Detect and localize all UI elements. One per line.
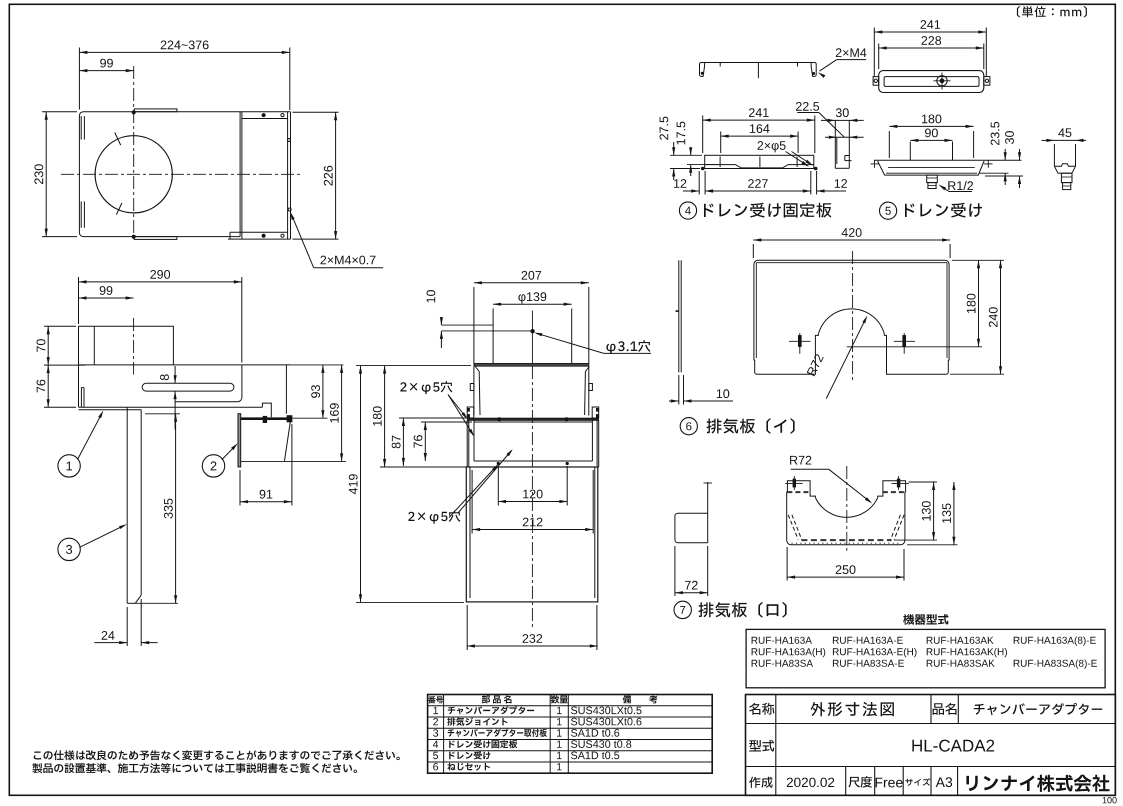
label 2x phi5 lower	[408, 511, 460, 524]
row3 cells	[845, 767, 847, 796]
dim 23.5	[1004, 149, 1006, 160]
arc center line	[847, 346, 982, 348]
screw dots on centerline	[132, 110, 136, 114]
view 3: chamber adapter side view with exhaust joint	[349, 271, 651, 650]
R72 label (view7)	[790, 456, 811, 465]
parts row 5	[433, 752, 438, 759]
tab center marks	[785, 482, 802, 484]
dim 17.5	[687, 164, 718, 166]
balloon 6 and label	[680, 418, 697, 435]
balloon 5 and label	[880, 202, 897, 219]
dim 76	[44, 406, 76, 408]
dim 120	[497, 466, 499, 506]
shoulders and concave arc	[810, 492, 815, 498]
note text line 2	[32, 763, 357, 773]
duct edges	[473, 287, 475, 364]
model row 3	[752, 660, 813, 667]
dim 419	[356, 365, 471, 367]
left flange detail	[80, 388, 82, 408]
dim 135	[907, 544, 958, 546]
lower plate	[466, 467, 598, 602]
centerline (view7)	[846, 466, 848, 551]
band screws	[497, 417, 501, 421]
dim 91	[239, 470, 241, 506]
dim 70	[44, 325, 76, 327]
parts row 4	[433, 741, 438, 748]
balloon 3	[58, 538, 80, 560]
vertical centerline	[133, 66, 135, 242]
balloon 2	[202, 455, 224, 477]
bottom legs and arch	[754, 334, 819, 374]
sliding edge	[285, 365, 287, 414]
dim 99 view2	[79, 297, 134, 299]
thick dashed bend lines under tabs	[787, 491, 810, 493]
dim 130	[909, 481, 938, 483]
duct circle	[95, 136, 172, 213]
R72 leader	[826, 318, 866, 398]
slot hole marks	[789, 340, 811, 342]
step tab to bracket	[262, 403, 271, 417]
parts table header	[428, 696, 443, 703]
view 7: exhaust plate (ro)	[674, 456, 958, 619]
box outline	[787, 492, 906, 545]
dim 30	[821, 119, 864, 121]
dim 180	[380, 466, 466, 468]
parts row 3	[433, 729, 438, 737]
dim 24	[126, 607, 128, 646]
mounting plate under body	[79, 409, 142, 411]
left flange lines	[83, 116, 85, 140]
title table frame	[746, 695, 1116, 796]
dim 22.5 leader	[825, 136, 864, 138]
side view small	[707, 482, 709, 543]
top view rounded body	[879, 71, 984, 93]
view 5: drain receiver	[871, 20, 1087, 219]
note text line 1	[34, 750, 400, 760]
centerline (view6)	[852, 251, 854, 382]
dim 169	[341, 365, 343, 462]
side view (right)	[834, 120, 836, 168]
sheet number 100	[1103, 797, 1117, 803]
exhaust joint box	[473, 366, 475, 415]
side view	[1053, 144, 1055, 166]
balloon 4 and label	[679, 202, 696, 219]
dim 212	[471, 470, 473, 534]
dim 241 top	[873, 28, 875, 78]
dim 27.5	[670, 154, 702, 156]
channel walls	[909, 142, 911, 161]
label phi3.1 hole	[606, 340, 650, 354]
dim 76	[421, 421, 472, 423]
dim 224~376	[78, 48, 80, 110]
inner panel edge	[175, 365, 242, 402]
bend dashes diagonal right	[894, 515, 904, 540]
dim 99	[79, 70, 133, 72]
dim 228	[878, 44, 880, 70]
unit note	[1017, 6, 1087, 17]
title texts	[749, 703, 774, 715]
dim 241 (view4)	[702, 116, 704, 154]
dim 226	[293, 111, 339, 113]
bracket part 2	[238, 414, 241, 467]
dim 12 left	[698, 171, 700, 195]
body band	[79, 364, 291, 366]
dim phi139	[493, 303, 572, 305]
model row 2	[752, 648, 826, 657]
panel screws	[262, 113, 266, 117]
dim 240	[950, 373, 1004, 375]
parts row 6	[433, 763, 438, 770]
parts row 2	[433, 718, 438, 725]
profile strip (top)	[703, 62, 814, 64]
dim 90	[910, 139, 952, 141]
circle tick marks	[115, 132, 121, 145]
ears	[873, 77, 879, 86]
sliding panel	[240, 111, 290, 113]
machine model box	[746, 629, 1105, 687]
slot	[142, 383, 234, 391]
view 4: drain receiver fixing plate	[660, 48, 867, 219]
dim 12 right	[816, 171, 818, 195]
view 1: chamber adapter top view	[34, 41, 383, 268]
view 2: chamber adapter front view	[36, 270, 346, 646]
parts table frame	[428, 695, 713, 774]
dim 420	[752, 244, 754, 258]
dim 207	[474, 282, 589, 284]
dim 10 (view6)	[678, 375, 680, 405]
label 2xM4x0.7	[314, 267, 383, 269]
dim 30 (view5)	[1019, 149, 1021, 160]
label 2x phi5 (view4)	[758, 141, 786, 152]
band top thick line	[467, 418, 599, 421]
drain fitting top	[937, 76, 947, 86]
label 2xM4	[836, 48, 867, 57]
dim 335	[145, 413, 180, 415]
parts row 1	[434, 707, 439, 714]
dim 93	[293, 417, 328, 419]
band walls	[466, 421, 468, 468]
label R1/2	[948, 181, 973, 190]
flange tabs above band	[467, 407, 474, 418]
dim 180 (view5)	[888, 131, 890, 158]
tabs	[787, 481, 810, 492]
dim 230	[42, 111, 77, 113]
dim 250	[786, 547, 788, 581]
machine model header	[903, 614, 948, 625]
dim 45	[1042, 139, 1087, 141]
dim 72	[674, 546, 676, 596]
row1 cells	[775, 695, 777, 796]
bottom tab	[134, 237, 177, 240]
body outline	[79, 112, 240, 237]
label 2x phi5 upper	[400, 381, 452, 394]
hood centerline	[133, 318, 135, 375]
M4 holes on right edge	[288, 139, 291, 142]
front view plate	[705, 155, 814, 168]
dim 8 slot	[174, 366, 176, 383]
side view line	[678, 260, 680, 372]
dim 290	[78, 277, 80, 324]
balloon 7 and label	[674, 601, 691, 618]
inner bottom dashed line	[801, 539, 891, 541]
bend dashes diagonal left	[788, 515, 798, 540]
company name Rinnai	[966, 775, 1109, 792]
phi3.1 hole	[530, 329, 534, 333]
model row 1	[752, 637, 812, 644]
dim 180 (view6)	[952, 259, 1004, 261]
dim 87	[399, 417, 466, 419]
plate outline	[754, 260, 949, 360]
dim 232	[466, 605, 468, 650]
drain fitting front	[927, 175, 938, 183]
dim 10 and hole lines	[441, 324, 493, 326]
balloon 1	[58, 455, 80, 477]
part 3 plate	[126, 407, 128, 603]
view 6: exhaust plate (i)	[669, 228, 1004, 435]
hood outline	[79, 326, 174, 407]
top tab	[134, 109, 177, 112]
joint top flange	[474, 363, 589, 366]
dim 164	[720, 132, 722, 154]
centerline	[531, 311, 533, 364]
front view tray	[874, 159, 1022, 161]
dim 227	[810, 171, 812, 195]
horizontal centerline	[61, 173, 301, 175]
